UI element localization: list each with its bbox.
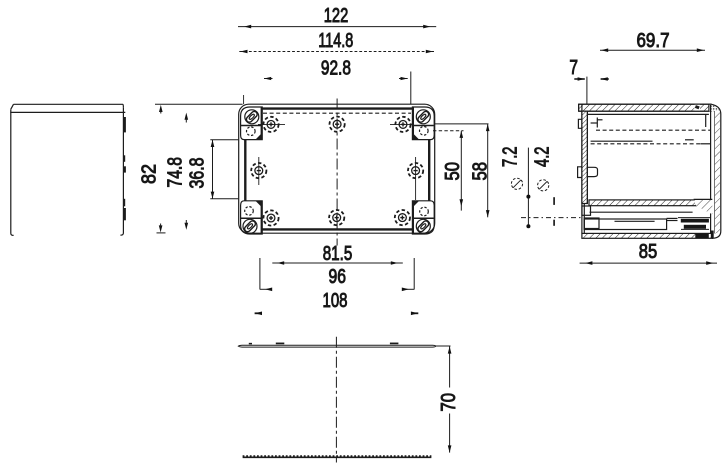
svg-text:7.2: 7.2 bbox=[500, 147, 522, 168]
svg-text:36.8: 36.8 bbox=[187, 158, 209, 189]
svg-text:82: 82 bbox=[139, 164, 161, 184]
svg-text:122: 122 bbox=[324, 5, 349, 27]
svg-text:114.8: 114.8 bbox=[318, 30, 353, 52]
svg-text:81.5: 81.5 bbox=[323, 243, 353, 265]
svg-text:4.2: 4.2 bbox=[532, 147, 554, 168]
svg-text:108: 108 bbox=[323, 290, 348, 312]
svg-text:58: 58 bbox=[469, 162, 491, 181]
svg-text:7: 7 bbox=[569, 57, 578, 79]
svg-text:92.8: 92.8 bbox=[321, 57, 351, 79]
svg-text:74.8: 74.8 bbox=[165, 157, 187, 188]
svg-text:96: 96 bbox=[329, 266, 347, 288]
svg-text:69.7: 69.7 bbox=[637, 30, 670, 52]
svg-text:50: 50 bbox=[442, 162, 464, 181]
svg-text:85: 85 bbox=[639, 241, 658, 263]
svg-text:70: 70 bbox=[438, 393, 460, 412]
